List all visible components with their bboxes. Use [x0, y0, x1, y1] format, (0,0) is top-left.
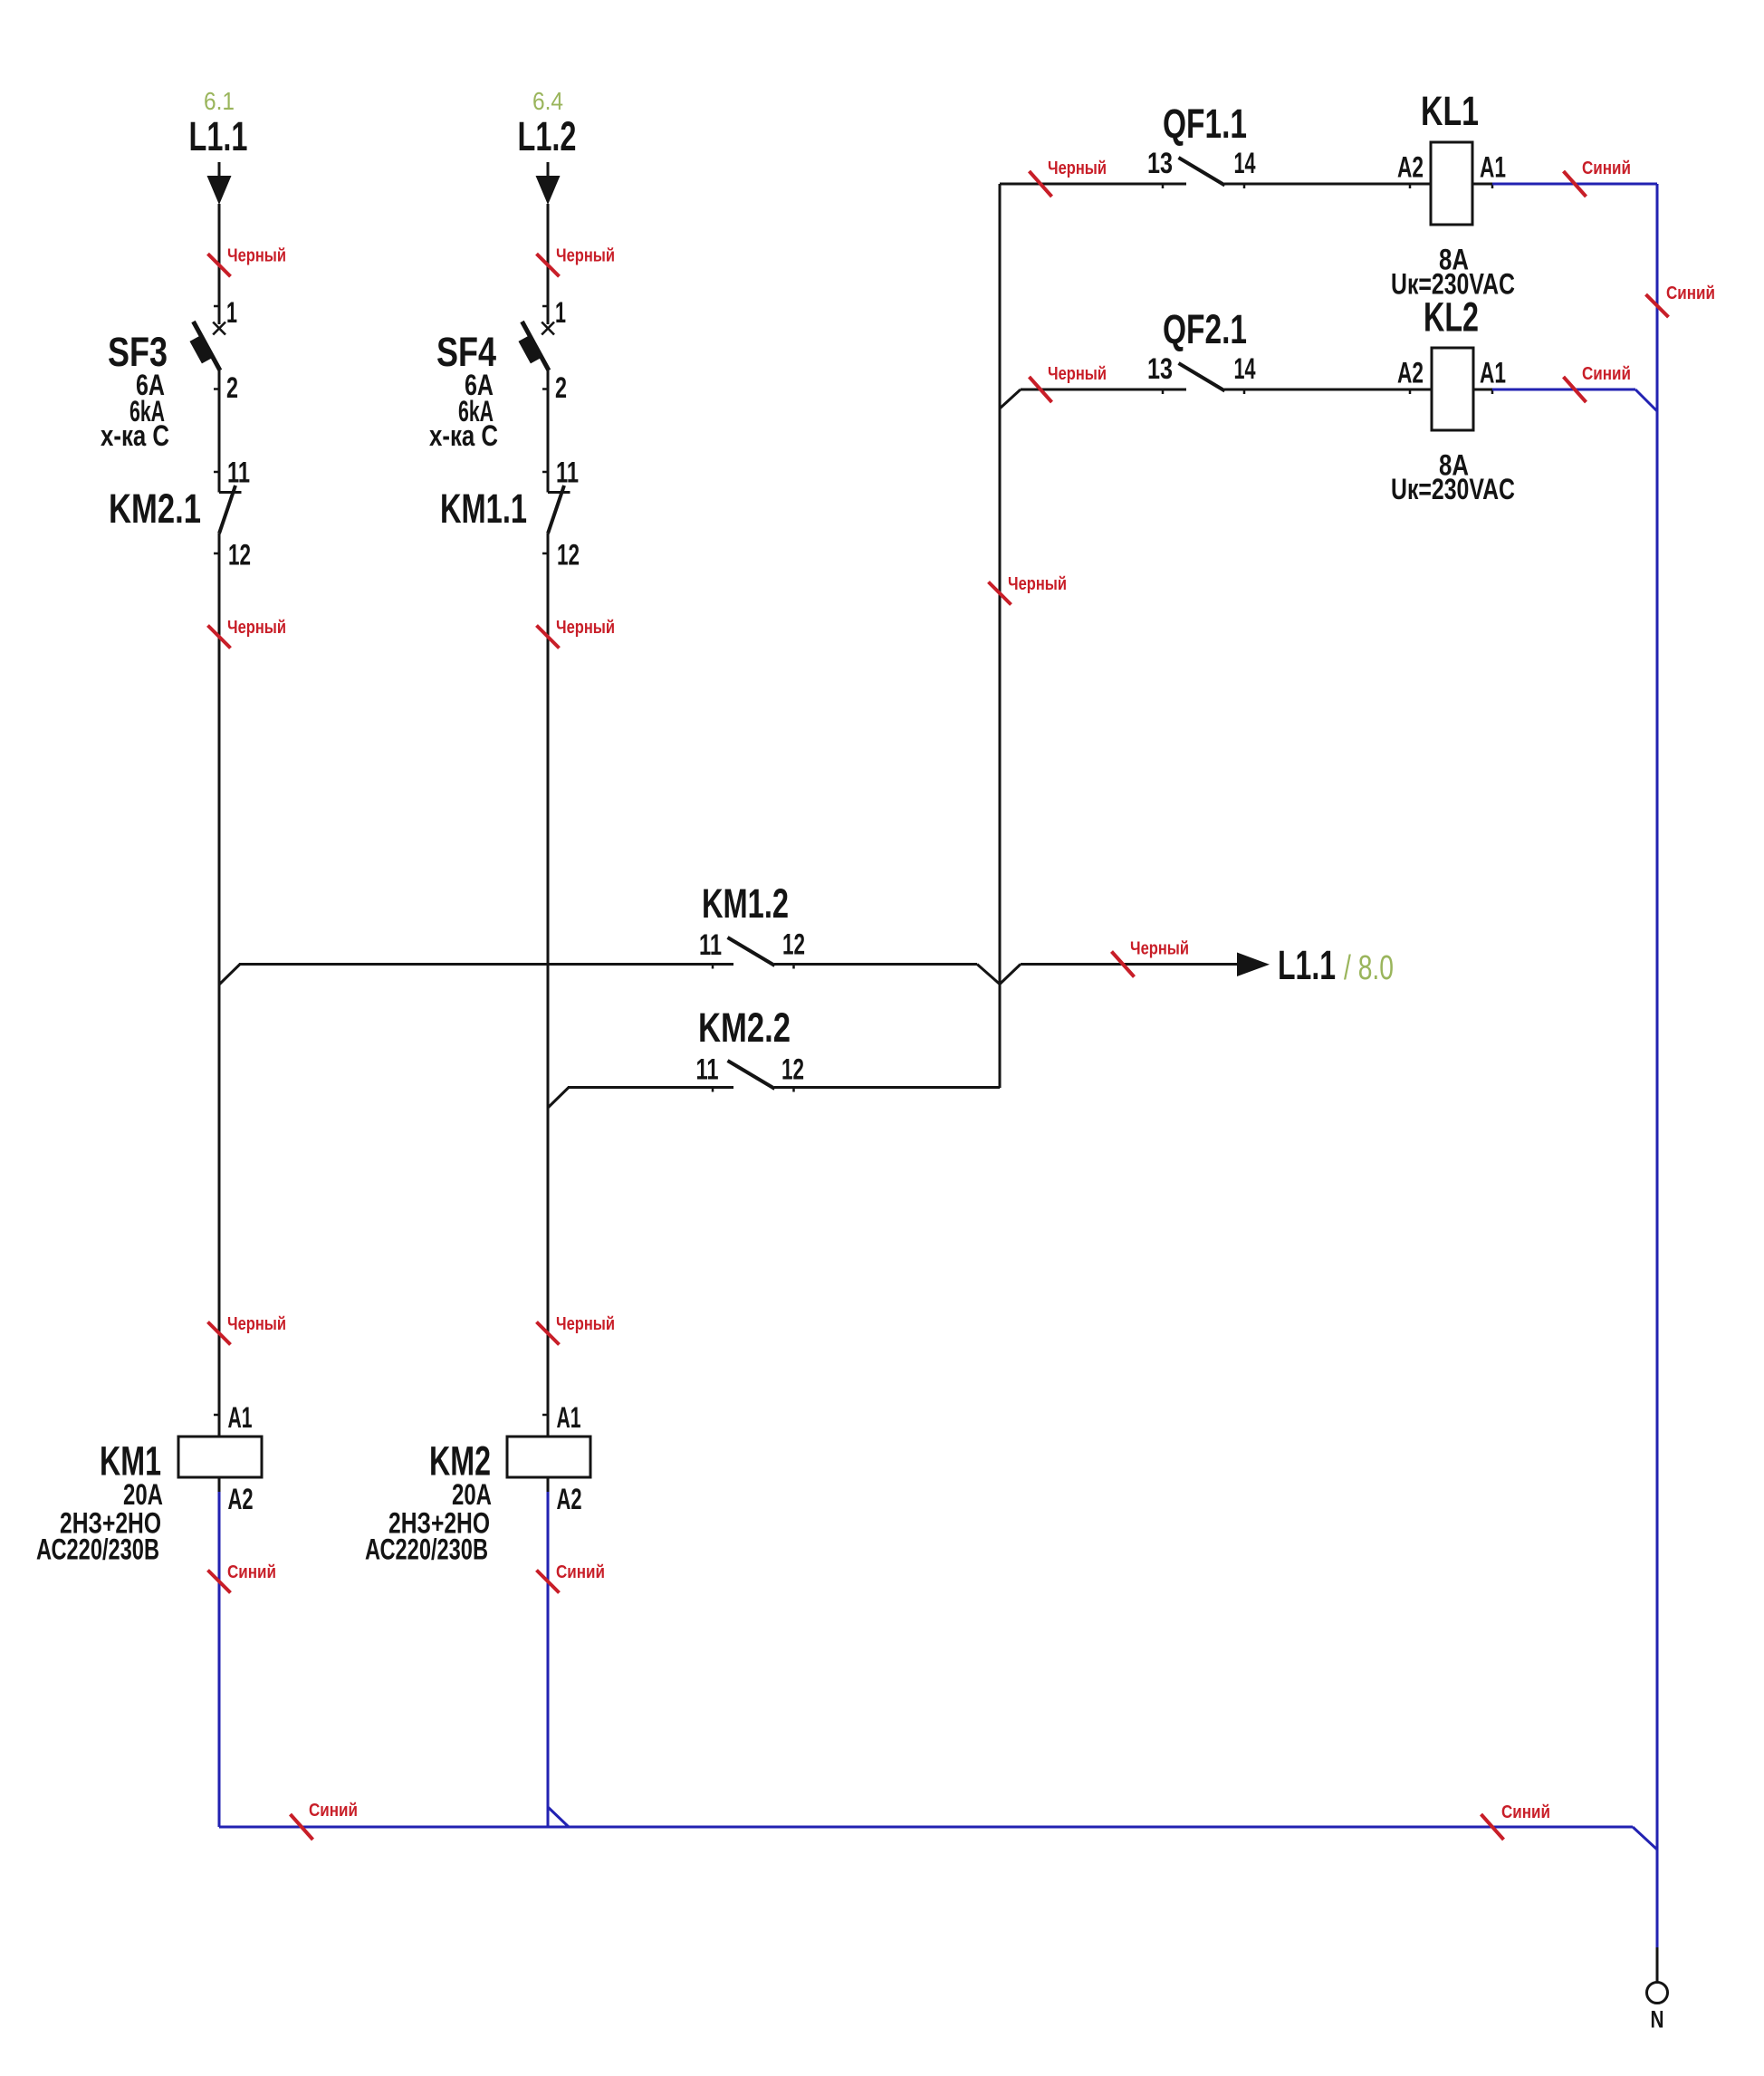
- svg-text:1: 1: [555, 296, 566, 329]
- svg-text:L1.1: L1.1: [189, 113, 248, 159]
- svg-text:KL1: KL1: [1421, 88, 1479, 134]
- svg-text:A2: A2: [1397, 357, 1424, 389]
- svg-text:A1: A1: [1480, 357, 1506, 389]
- svg-text:A2: A2: [228, 1483, 254, 1515]
- svg-text:11: 11: [227, 457, 250, 489]
- svg-text:х-ка С: х-ка С: [429, 419, 498, 452]
- svg-text:Синий: Синий: [556, 1562, 605, 1582]
- svg-text:АС220/230В: АС220/230В: [365, 1533, 488, 1566]
- svg-text:14: 14: [1234, 352, 1256, 385]
- svg-text:Черный: Черный: [556, 618, 615, 638]
- svg-text:13: 13: [1147, 147, 1173, 179]
- svg-text:Черный: Черный: [1008, 574, 1067, 594]
- svg-text:A2: A2: [557, 1483, 582, 1515]
- svg-text:QF2.1: QF2.1: [1163, 306, 1247, 352]
- svg-text:KM2.2: KM2.2: [698, 1004, 791, 1051]
- svg-text:Синий: Синий: [1501, 1802, 1550, 1822]
- svg-text:KM2.1: KM2.1: [109, 485, 201, 532]
- svg-text:2: 2: [555, 371, 567, 404]
- svg-text:2: 2: [226, 371, 238, 404]
- svg-text:/ 8.0: / 8.0: [1344, 949, 1394, 987]
- svg-text:12: 12: [228, 539, 251, 572]
- svg-text:Синий: Синий: [1582, 159, 1631, 178]
- svg-text:Синий: Синий: [227, 1562, 276, 1582]
- svg-text:Синий: Синий: [1666, 284, 1715, 303]
- svg-text:11: 11: [696, 1053, 719, 1086]
- svg-text:Черный: Черный: [1048, 364, 1107, 384]
- svg-text:L1.2: L1.2: [518, 113, 577, 159]
- svg-text:1: 1: [226, 296, 237, 329]
- svg-text:A1: A1: [557, 1401, 581, 1434]
- svg-text:11: 11: [556, 457, 579, 489]
- svg-text:Черный: Черный: [227, 246, 286, 266]
- svg-text:N: N: [1651, 2006, 1664, 2033]
- svg-text:L1.1: L1.1: [1278, 942, 1336, 988]
- svg-text:6.1: 6.1: [204, 87, 235, 115]
- svg-text:Синий: Синий: [309, 1801, 358, 1821]
- svg-text:Черный: Черный: [227, 618, 286, 638]
- svg-text:KM1.1: KM1.1: [440, 485, 527, 532]
- svg-text:12: 12: [781, 1053, 804, 1086]
- svg-text:Черный: Черный: [1048, 159, 1107, 178]
- svg-text:Черный: Черный: [556, 246, 615, 266]
- svg-text:6.4: 6.4: [532, 87, 563, 115]
- svg-text:QF1.1: QF1.1: [1163, 101, 1247, 147]
- svg-text:12: 12: [782, 928, 805, 961]
- svg-text:Черный: Черный: [1130, 939, 1189, 959]
- svg-text:Черный: Черный: [227, 1314, 286, 1334]
- svg-text:A1: A1: [228, 1401, 253, 1434]
- svg-text:A1: A1: [1480, 151, 1506, 184]
- svg-text:Uк=230VAC: Uк=230VAC: [1391, 268, 1515, 301]
- svg-text:A2: A2: [1397, 151, 1424, 184]
- svg-text:АС220/230В: АС220/230В: [36, 1533, 159, 1566]
- svg-text:KL2: KL2: [1424, 294, 1479, 341]
- svg-text:Uк=230VAC: Uк=230VAC: [1391, 473, 1515, 505]
- svg-text:Синий: Синий: [1582, 364, 1631, 384]
- svg-text:KM1.2: KM1.2: [702, 880, 789, 927]
- svg-text:12: 12: [557, 539, 580, 572]
- svg-text:14: 14: [1234, 147, 1256, 179]
- svg-text:KM1: KM1: [100, 1438, 161, 1485]
- svg-text:х-ка С: х-ка С: [101, 419, 169, 452]
- svg-text:11: 11: [699, 928, 722, 961]
- svg-text:KM2: KM2: [429, 1438, 491, 1485]
- svg-text:Черный: Черный: [556, 1314, 615, 1334]
- svg-text:13: 13: [1147, 352, 1173, 385]
